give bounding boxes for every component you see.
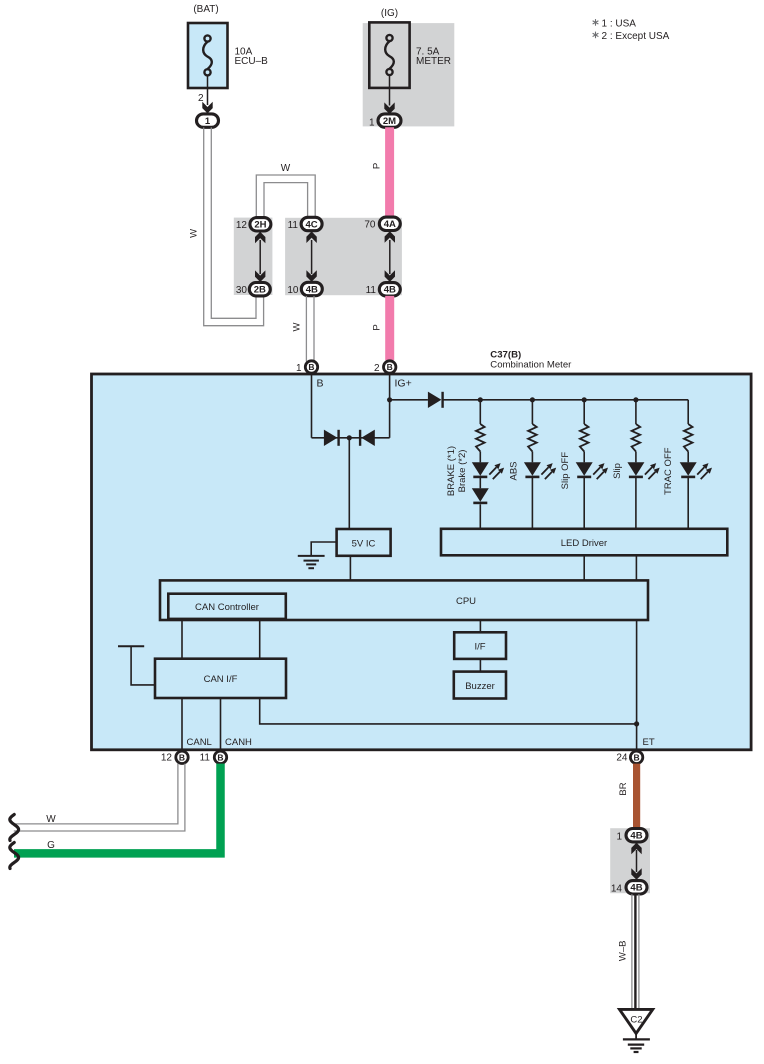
svg-text:24: 24 [616, 753, 628, 764]
svg-text:1: 1 [296, 363, 302, 374]
svg-text:CAN I/F: CAN I/F [204, 674, 238, 685]
wire IG+ from pin 2 down [389, 373, 391, 438]
svg-text:Buzzer: Buzzer [465, 681, 495, 692]
wire CAN Controller to CAN I/F (left) [181, 619, 183, 659]
svg-text:BR: BR [618, 782, 629, 795]
wire W from connector 1 down, right, up to 2B pin 30 [204, 127, 264, 325]
svg-text:2H: 2H [254, 220, 266, 231]
connector shading 4C/4B/4A/4B block [285, 218, 402, 295]
wire W from pin 12 down and left off-page [14, 764, 178, 824]
svg-text:4C: 4C [306, 219, 318, 230]
wire IG+ to LED rail [390, 399, 428, 401]
svg-text:(BAT): (BAT) [193, 4, 218, 15]
svg-text:W: W [46, 814, 56, 825]
svg-text:10: 10 [287, 285, 299, 296]
note marker *1 : USA [593, 19, 599, 26]
junction node 5V feed [347, 435, 352, 440]
wire between BRAKE LEDs [479, 478, 481, 488]
junction arrows between 2H and 2B [259, 240, 261, 274]
wire B from pin 1 down [311, 373, 313, 438]
note marker *2 : Except USA [593, 32, 599, 39]
svg-text:B: B [179, 753, 185, 763]
junction node LED rail col SlipOFF [582, 397, 587, 402]
junction node LED rail col Slip [633, 397, 638, 402]
diode D1 (B feed) [324, 430, 338, 446]
CAN I/F block [155, 659, 286, 698]
svg-text:ECU–B: ECU–B [235, 56, 269, 67]
wire G from pin 11 down and left off-page [14, 764, 221, 854]
resistor R2 [528, 424, 537, 452]
ground (signal) near 5V IC [298, 555, 325, 557]
CAN termination stub [118, 645, 144, 647]
svg-text:CANH: CANH [225, 737, 252, 748]
svg-text:P: P [371, 324, 382, 330]
svg-text:ET: ET [643, 737, 655, 748]
CPU block [160, 580, 648, 620]
wire fuse IG to connector 2M [389, 75, 391, 105]
combination meter U1 body [92, 374, 752, 750]
svg-text:CAN Controller: CAN Controller [195, 602, 259, 613]
wire CAN I/F to ET node [260, 698, 637, 724]
svg-text:B: B [217, 753, 223, 763]
wire ET from CPU to pin 24 [636, 620, 638, 751]
LED Slip [627, 462, 644, 475]
svg-text:2B: 2B [254, 285, 266, 296]
wire LED TRACOFF to LED Driver [687, 478, 689, 529]
junction node LED rail col BRAKE [478, 397, 483, 402]
svg-text:4A: 4A [384, 219, 396, 230]
wire P from 4B pin 11 to meter pin 2 B [385, 296, 394, 360]
wire LED Driver to CPU (left) [583, 555, 585, 580]
svg-text:14: 14 [611, 884, 623, 895]
break symbol G wire [10, 843, 19, 869]
svg-text:W–B: W–B [618, 941, 629, 962]
wire LED SlipOFF to LED Driver [583, 478, 585, 529]
LED Driver block [441, 529, 727, 556]
regulator 5V IC [337, 529, 391, 556]
wire CANH inside meter [220, 698, 222, 750]
wire fuse BAT to connector 1 [207, 76, 209, 105]
connector 1 [197, 114, 219, 127]
wire BR from pin 24 to 4B pin 1 [633, 764, 640, 829]
junction node LED rail col ABS [530, 397, 535, 402]
wire rail to resistor Slip [635, 400, 637, 424]
svg-text:12: 12 [161, 753, 173, 764]
wire BRAKE LED to LED Driver [479, 504, 481, 529]
wire CAN Controller to CAN I/F (right) [259, 619, 261, 659]
svg-text:G: G [47, 840, 55, 851]
resistor R3 [580, 424, 589, 452]
svg-text:2: 2 [374, 363, 380, 374]
wire LED ABS to LED Driver [531, 478, 533, 529]
wire W-B from 4B pin 14 to ground C2 [631, 894, 633, 1010]
svg-text:2M: 2M [383, 116, 396, 127]
svg-text:B: B [387, 362, 393, 372]
resistor R1 [476, 424, 485, 452]
svg-text:I/F: I/F [474, 642, 485, 653]
svg-text:11: 11 [288, 220, 299, 231]
wire resistor to LED ABS [531, 452, 533, 463]
svg-text:BRAKE (*1): BRAKE (*1) [446, 446, 457, 496]
svg-text:70: 70 [364, 220, 376, 231]
svg-text:1: 1 [369, 118, 375, 129]
svg-text:2 : Except USA: 2 : Except USA [602, 31, 670, 42]
wire LED Driver to CPU (right) [635, 555, 637, 580]
wire W from 2H pin 12 up, right, down to 4C pin 11 [256, 175, 315, 218]
svg-text:ABS: ABS [508, 461, 519, 480]
svg-text:4B: 4B [630, 883, 642, 894]
arrow into connector 1 [202, 102, 212, 114]
wire rail to resistor TRACOFF [687, 400, 689, 424]
wire resistor to LED Slip [635, 452, 637, 463]
svg-text:11: 11 [366, 285, 377, 296]
wire I/F to Buzzer [479, 659, 481, 672]
wire 5V IC to ground [311, 542, 336, 555]
connector shading 4B/4B block bottom right [610, 828, 650, 893]
svg-text:Slip: Slip [612, 463, 623, 479]
wire CANL inside meter [181, 698, 183, 750]
wire W from 4B pin 10 to meter pin 1 B [305, 296, 307, 362]
ground C2 [620, 1009, 653, 1033]
svg-text:LED Driver: LED Driver [561, 538, 607, 549]
svg-text:W: W [292, 322, 303, 331]
resistor R5 [684, 424, 693, 452]
CAN Controller block [168, 594, 285, 619]
svg-text:4B: 4B [306, 284, 318, 295]
wire LED supply rail [443, 399, 689, 401]
wire CPU to I/F [479, 620, 481, 632]
wire resistor to LED BRAKE [479, 452, 481, 463]
svg-text:B: B [634, 753, 640, 763]
svg-text:IG+: IG+ [395, 378, 412, 390]
svg-text:30: 30 [236, 285, 248, 296]
wire across diode OR [312, 437, 390, 439]
Buzzer block [454, 672, 506, 699]
svg-text:CPU: CPU [456, 596, 476, 607]
LED ABS [524, 462, 541, 475]
wire rail to resistor BRAKE [479, 400, 481, 424]
svg-text:Combination Meter: Combination Meter [490, 360, 572, 371]
junction arrows between 4A and 4B [389, 240, 391, 274]
wire diode node to 5V IC [348, 438, 350, 529]
wire resistor to LED TRACOFF [687, 452, 689, 463]
resistor R4 [632, 424, 641, 452]
LED SlipOFF [576, 462, 593, 475]
svg-text:5V IC: 5V IC [352, 539, 376, 550]
connector shading 2H/2B block [234, 218, 273, 295]
arrow into connector 2M [384, 102, 394, 114]
junction arrows between 4B and 4B [636, 850, 638, 872]
svg-text:12: 12 [236, 220, 248, 231]
LED BRAKE [472, 462, 489, 475]
wire rail to resistor ABS [531, 400, 533, 424]
LED BRAKE second (*2) [472, 488, 489, 501]
wire 5V IC to CPU [349, 556, 351, 581]
junction arrows between 4C and 4B [311, 240, 313, 274]
LED TRACOFF [680, 462, 697, 475]
svg-text:1 : USA: 1 : USA [602, 18, 637, 29]
svg-text:TRAC OFF: TRAC OFF [663, 447, 674, 495]
wire LED Slip to LED Driver [635, 478, 637, 529]
diode D3 (LED rail feed) [428, 392, 442, 408]
diode D2 (IG feed) [361, 430, 375, 446]
svg-text:11: 11 [200, 753, 211, 764]
svg-text:CANL: CANL [187, 737, 212, 748]
svg-text:4B: 4B [384, 285, 396, 296]
svg-text:1: 1 [205, 116, 211, 127]
svg-text:METER: METER [416, 56, 451, 67]
wire rail to resistor SlipOFF [583, 400, 585, 424]
svg-text:P: P [371, 163, 382, 169]
svg-text:1: 1 [616, 832, 622, 843]
svg-text:4B: 4B [630, 831, 642, 842]
svg-text:W: W [189, 229, 200, 238]
svg-text:Brake (*2): Brake (*2) [457, 450, 468, 493]
svg-text:B: B [317, 378, 324, 390]
connector shading IG fuse block [363, 23, 455, 126]
svg-text:(IG): (IG) [381, 8, 398, 19]
svg-text:B: B [308, 362, 314, 372]
svg-text:W: W [281, 163, 291, 174]
svg-text:2: 2 [198, 93, 204, 104]
junction node IG+ [387, 397, 392, 402]
wire P from connector 2M to 4A pin 70 [385, 127, 394, 218]
svg-text:Slip OFF: Slip OFF [560, 452, 571, 490]
wire resistor to LED SlipOFF [583, 452, 585, 463]
junction node ET [634, 721, 639, 726]
I/F block [454, 632, 506, 659]
break symbol W wire [10, 815, 19, 841]
svg-text:C2: C2 [630, 1015, 642, 1026]
